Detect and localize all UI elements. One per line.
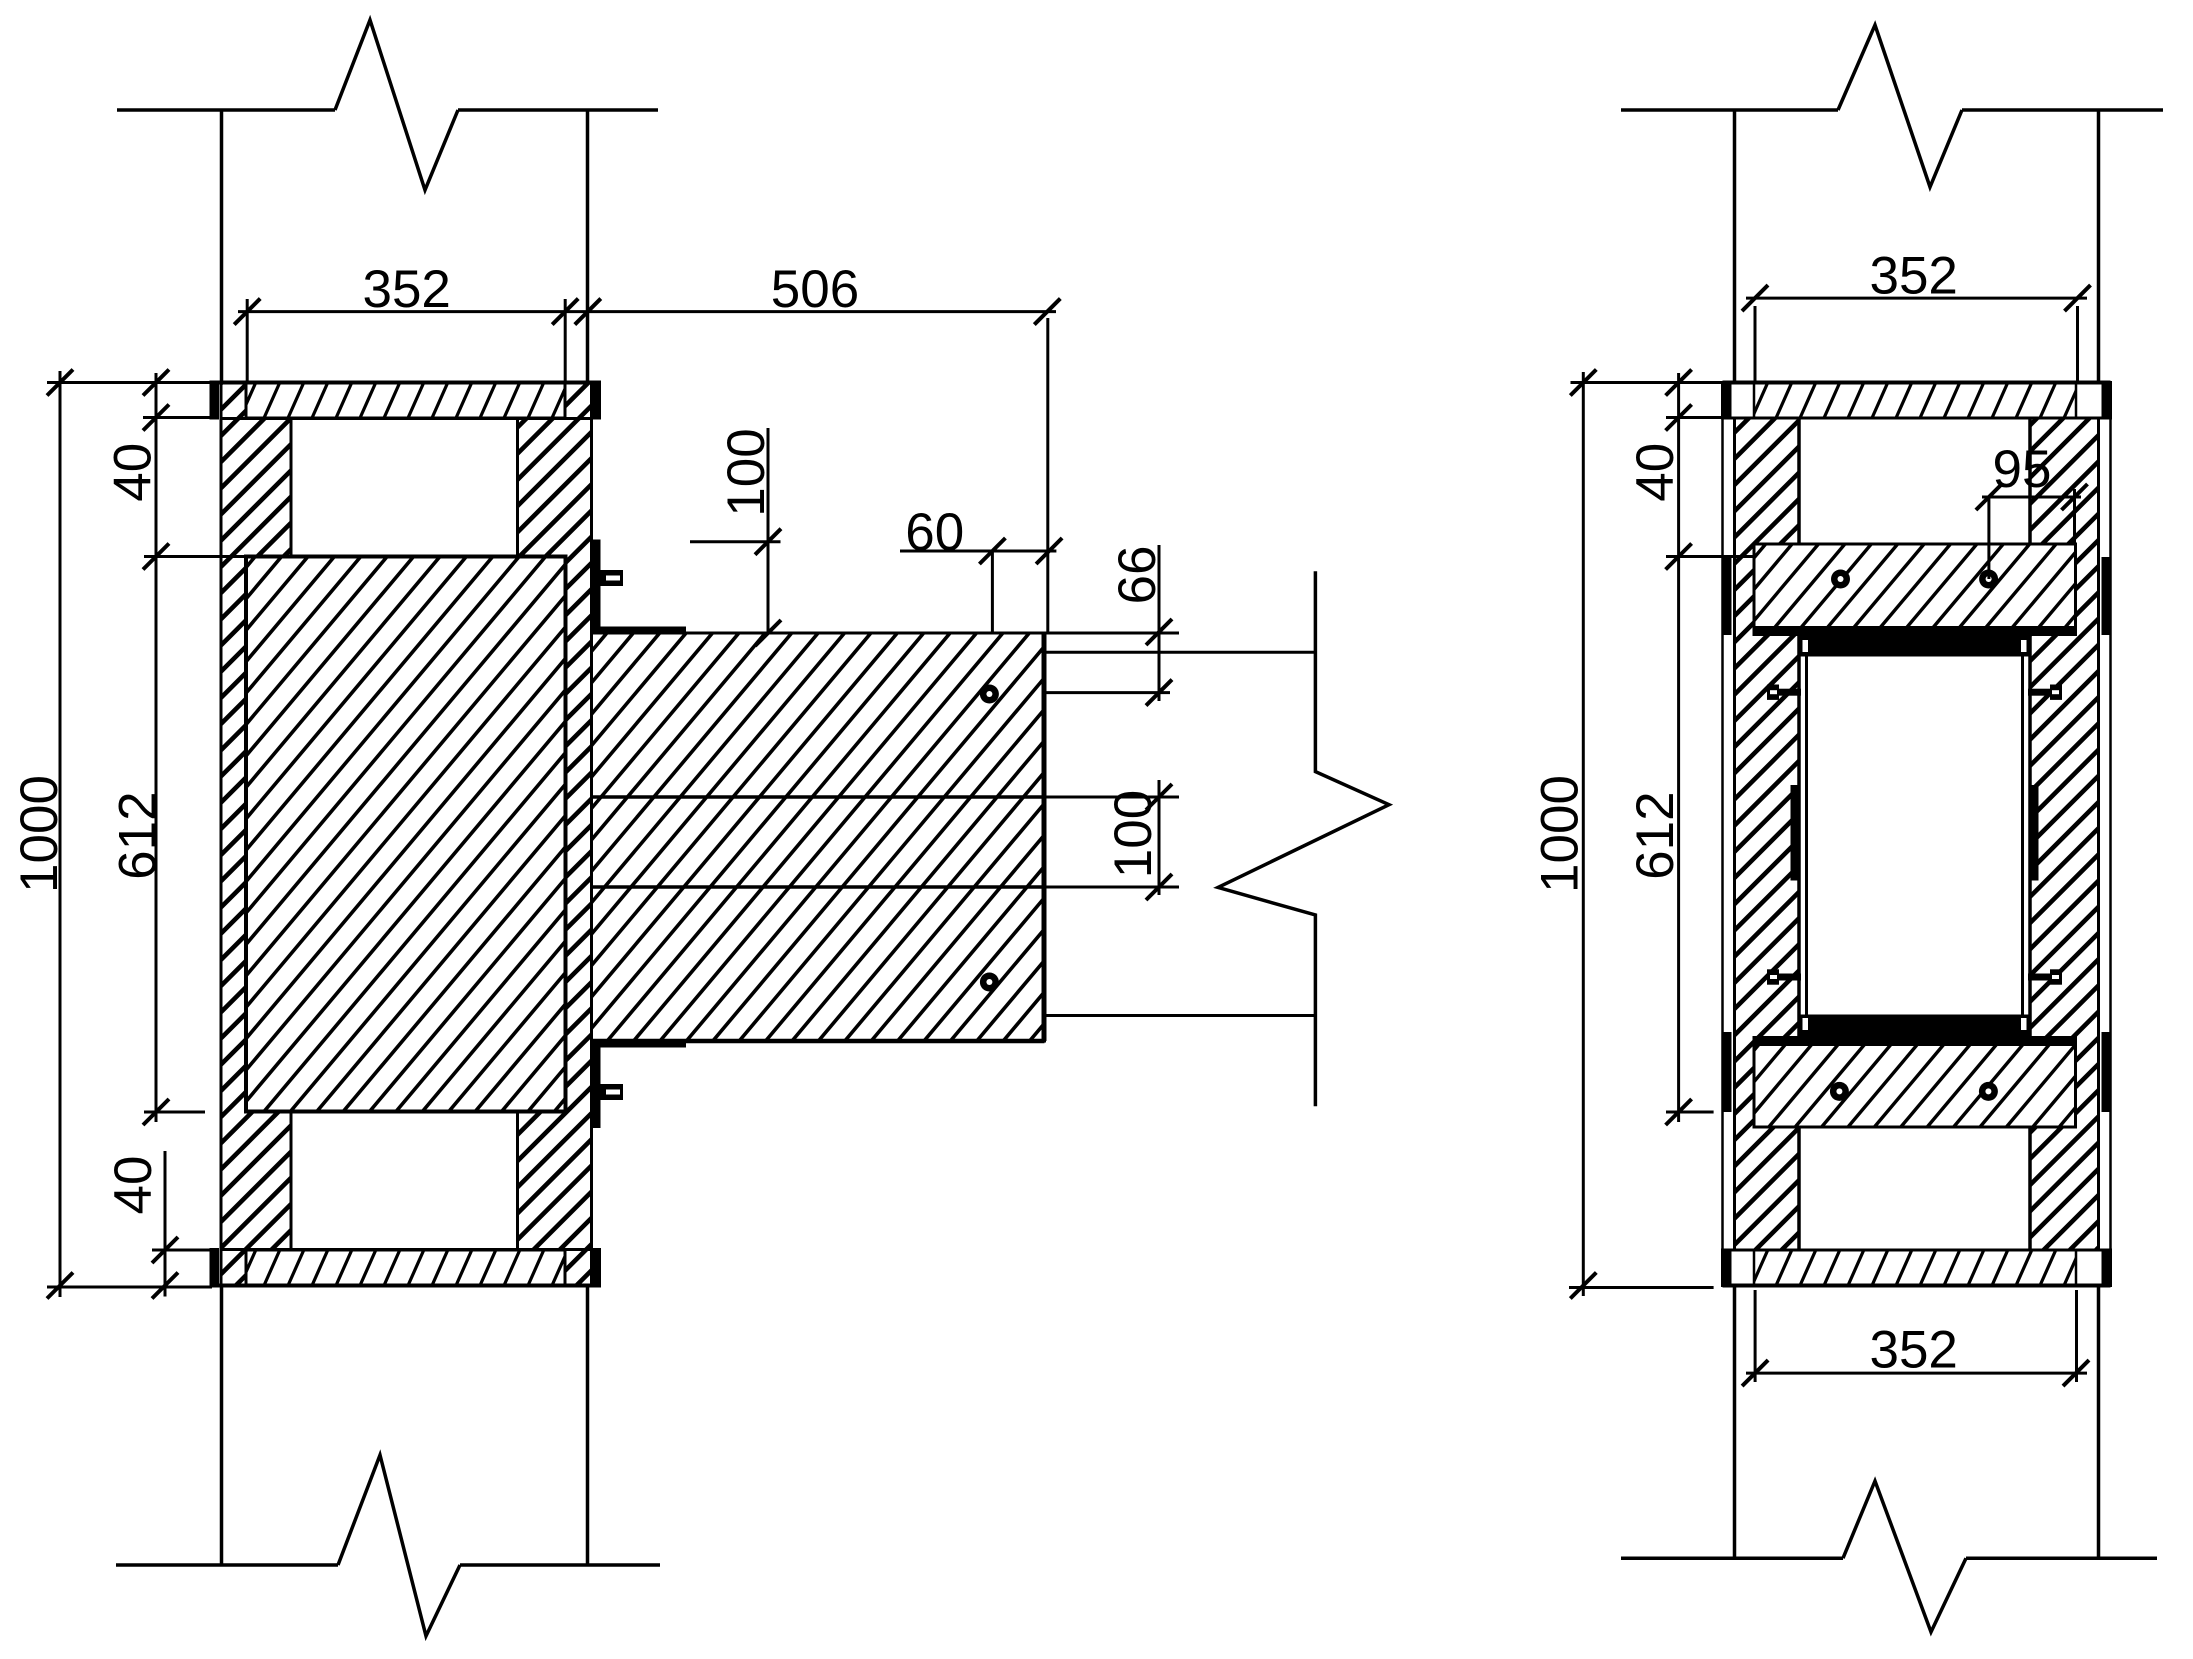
- right end cap plate top (solid): [592, 381, 602, 420]
- wire: beam box inner left: [1805, 640, 1808, 1036]
- outer plate bar (solid): [2102, 1032, 2111, 1112]
- bolt dot lower in beam: [980, 973, 999, 992]
- wire: beam spline lower line: [592, 885, 1045, 889]
- extension line: [246, 299, 249, 382]
- extension line: [47, 1286, 212, 1289]
- beam end block (hatched): [238, 633, 1373, 1041]
- side bolt right stem: [2028, 689, 2050, 696]
- svg-text:100: 100: [717, 428, 776, 516]
- wire: left column upper left edge: [220, 110, 224, 383]
- svg-text:612: 612: [1626, 791, 1685, 879]
- dimension line 40 bottom left: [164, 1151, 167, 1297]
- side bolt left head: [1767, 969, 1779, 984]
- wire: beam top continuation line: [1046, 651, 1315, 654]
- svg-text:40: 40: [1626, 443, 1685, 502]
- bolt dot batten: [1830, 1082, 1849, 1101]
- dimension line 40/612 right: [1677, 373, 1680, 1122]
- beam top seat plate (thick): [592, 627, 687, 634]
- bottom clamp plate (hatched): [216, 1250, 568, 1286]
- outer plate cap (solid): [1723, 1250, 1732, 1286]
- side bolt right head: [2050, 685, 2062, 700]
- leader to bolt: [991, 551, 994, 633]
- wire: right column bottom break line: [1621, 1556, 1843, 1560]
- wire: right assembly bottom edge: [1723, 1284, 2111, 1288]
- wire: left column lower left edge: [220, 1286, 224, 1566]
- bolt dot batten: [1979, 570, 1998, 589]
- outer plate cap (solid): [2102, 383, 2111, 419]
- outer plate bar (solid): [1723, 557, 1732, 635]
- right view top plate: [1723, 383, 2111, 419]
- svg-text:352: 352: [1869, 246, 1957, 305]
- extension line: [2073, 489, 2076, 543]
- side bolt left head: [1767, 685, 1779, 700]
- extension line: [143, 416, 212, 419]
- extension line: [564, 299, 567, 382]
- svg-text:612: 612: [108, 791, 167, 879]
- extension line: [690, 540, 781, 543]
- wire: left column bottom break line: [116, 1563, 338, 1567]
- svg-text:352: 352: [1869, 1320, 1957, 1379]
- dimension line 352 bottom right: [1746, 1372, 2087, 1375]
- beam seat plate top (solid): [1799, 635, 2030, 657]
- wire: top plate underside line: [221, 417, 592, 420]
- svg-text:1000: 1000: [1530, 775, 1589, 893]
- svg-text:352: 352: [362, 260, 450, 319]
- wire: beam box inner right: [2021, 640, 2024, 1036]
- outer plate cap (solid): [1723, 383, 1732, 419]
- extension line: [1569, 1286, 1714, 1289]
- extension line: [152, 1249, 212, 1252]
- extension line: [1666, 1111, 1714, 1114]
- left end cap plate top (solid): [210, 381, 220, 420]
- wire: beam spline upper line: [592, 795, 1045, 799]
- wire: right column top break line: [1621, 108, 1838, 112]
- side bolt right head: [2050, 969, 2062, 984]
- top clamp plate (hatched): [216, 383, 568, 419]
- extension line: [1754, 306, 1757, 381]
- wire: right column lower right edge: [2097, 1286, 2101, 1559]
- top batten (hatched): [1663, 544, 2135, 635]
- outer plate bar (solid): [2102, 557, 2111, 635]
- svg-text:506: 506: [771, 260, 859, 319]
- extension line: [2075, 1290, 2078, 1382]
- bottom batten (hatched): [1663, 1038, 2134, 1128]
- bolt dot upper in beam: [980, 685, 999, 704]
- dimension line 60: [900, 550, 1056, 553]
- wire: outer side plate left: [1721, 383, 1724, 1286]
- extension line: [1571, 381, 1722, 384]
- wire: beam right end edge: [1042, 633, 1047, 1041]
- dimension line 1000 left: [59, 371, 62, 1297]
- spline plate left (solid): [1791, 785, 1800, 881]
- extension line: [2076, 306, 2079, 381]
- dimension line 100 beam end: [1158, 780, 1161, 895]
- wire: beam box right edge: [2028, 418, 2032, 1250]
- wire: right assembly top edge: [1723, 381, 2111, 385]
- central connection block (hatched): [0, 557, 1021, 1112]
- extension line: [1046, 796, 1179, 799]
- wire: beam box left edge: [1797, 418, 1801, 1250]
- svg-text:100: 100: [1104, 790, 1163, 878]
- extension line: [1666, 416, 1721, 419]
- beam end plate lower (solid): [593, 1041, 601, 1128]
- spline plate right (solid): [2030, 785, 2039, 881]
- dimension line 40/612 left: [155, 373, 158, 1122]
- side bolt right stem: [2028, 974, 2050, 981]
- wire: bottom plate top line: [221, 1248, 592, 1251]
- svg-text:1000: 1000: [10, 775, 69, 893]
- leader to bolt: [1987, 497, 1990, 579]
- extension line beam end: [1046, 318, 1049, 633]
- wire: left column top break line: [117, 108, 335, 112]
- wire: left column upper right edge: [586, 110, 590, 383]
- bolt dot batten: [1831, 570, 1850, 589]
- dimension line 1000 right: [1582, 372, 1585, 1296]
- right end cap plate bottom (solid): [592, 1248, 602, 1287]
- left side plate strip (hatched): [0, 383, 1191, 1286]
- beam bottom seat plate (thick): [592, 1041, 687, 1048]
- extension line: [144, 1111, 205, 1114]
- svg-text:66: 66: [1108, 546, 1167, 605]
- dimension line 100 above beam: [767, 428, 770, 633]
- extension line: [1046, 886, 1179, 889]
- dimension line 352/506 top: [238, 310, 1056, 313]
- wire: right column upper right edge: [2097, 110, 2101, 383]
- svg-text:40: 40: [104, 1156, 163, 1215]
- side bolt left stem: [1779, 974, 1801, 981]
- bolt dot batten: [1979, 1082, 1998, 1101]
- extension line: [144, 555, 244, 558]
- wire: right column lower left edge: [1733, 1286, 1737, 1559]
- beam seat plate bottom (solid): [1799, 1015, 2030, 1038]
- extension line: [1666, 555, 1753, 558]
- right view right wall strip (hatched): [1179, 418, 2193, 1250]
- wire: left column lower right edge: [586, 1286, 590, 1566]
- svg-text:40: 40: [104, 443, 163, 502]
- extension line: [47, 381, 212, 384]
- extension line: [1046, 632, 1179, 635]
- wire: right column upper left edge: [1733, 110, 1737, 383]
- outer plate bar (solid): [1723, 1032, 1732, 1112]
- wire: beam bottom edge: [592, 1039, 1045, 1044]
- side bolt left stem: [1779, 689, 1801, 696]
- right view bottom plate: [1723, 1250, 2111, 1286]
- extension line: [1046, 691, 1170, 694]
- beam end plate upper (solid): [593, 540, 601, 629]
- outer plate cap (solid): [2102, 1250, 2111, 1286]
- bolt lower at end plate: [600, 1084, 623, 1100]
- svg-text:60: 60: [905, 503, 964, 562]
- right view left wall strip (hatched): [891, 418, 2193, 1250]
- dimension line 352 top right: [1746, 297, 2087, 300]
- wire: assembly top edge: [210, 381, 602, 385]
- wire: outer side plate right: [2109, 383, 2112, 1286]
- wire: assembly bottom edge: [210, 1284, 602, 1288]
- right side plate strip (hatched): [0, 383, 1479, 1286]
- bottom batten thick upper edge: [1754, 1038, 2076, 1047]
- beam break symbol: [1218, 571, 1389, 1106]
- wire: beam bottom continuation line: [1046, 1014, 1315, 1017]
- left end cap plate bottom (solid): [210, 1248, 220, 1287]
- dimension line 95: [1982, 496, 2081, 499]
- bolt upper at end plate: [600, 570, 623, 586]
- svg-text:95: 95: [1993, 440, 2052, 499]
- top batten thick lower edge: [1754, 626, 2076, 635]
- extension line: [1754, 1290, 1757, 1382]
- dimension line 66: [1158, 545, 1161, 701]
